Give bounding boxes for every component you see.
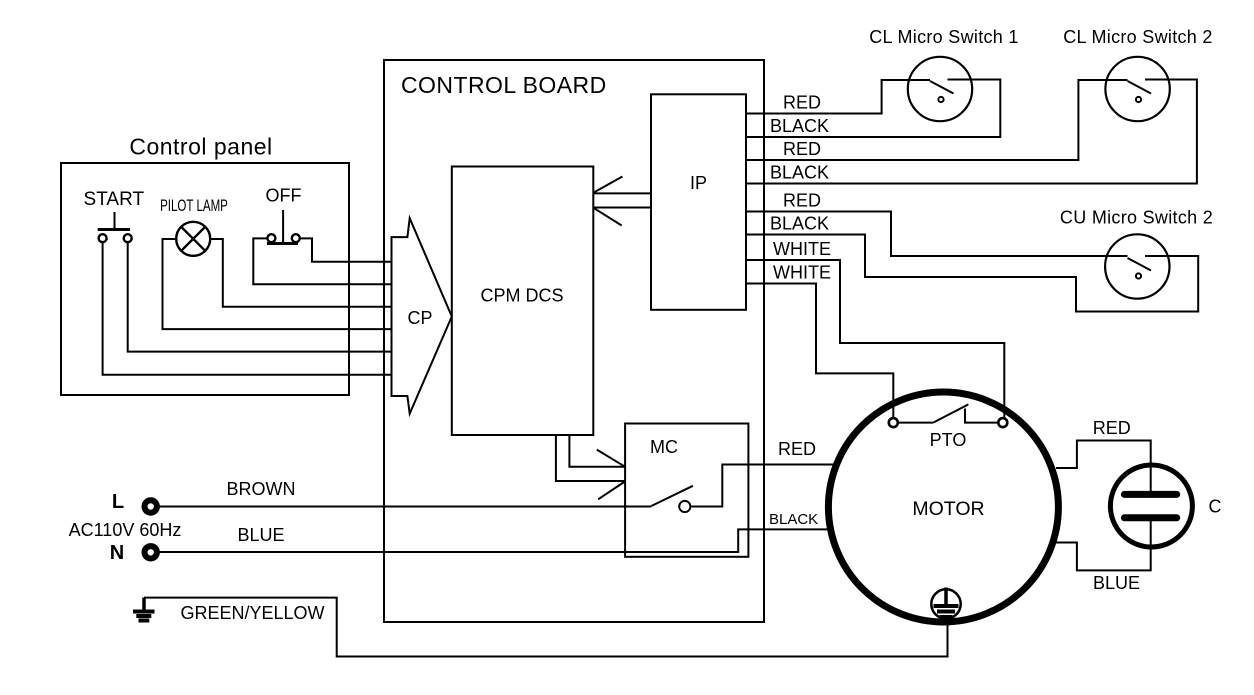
earth ground bar 3 — [139, 619, 150, 623]
svg-text:RED: RED — [1093, 418, 1131, 438]
start button terminal left — [99, 234, 107, 242]
PTO switch lever — [933, 404, 968, 422]
wire off right to CP pin1 — [301, 238, 392, 261]
terminal L — [145, 500, 157, 512]
CL micro switch 2 lever — [1128, 81, 1152, 94]
svg-text:WHITE: WHITE — [773, 263, 831, 283]
svg-text:BLACK: BLACK — [770, 163, 829, 183]
svg-text:CU Micro Switch 2: CU Micro Switch 2 — [1060, 208, 1213, 228]
CU micro switch 2 body — [1105, 234, 1169, 298]
terminal N — [145, 546, 157, 558]
capacitor plate bottom — [1124, 514, 1176, 521]
IP wire 8 WHITE to PTO left — [746, 284, 893, 418]
MC relay lever — [651, 486, 693, 506]
motor M1 body — [828, 392, 1058, 622]
CL micro switch 2 contact dot — [1136, 97, 1141, 102]
MC relay contact — [679, 501, 690, 512]
CL micro switch 2 body — [1105, 57, 1169, 121]
CPM DCS box U1 — [452, 167, 594, 436]
svg-text:PILOT LAMP: PILOT LAMP — [160, 197, 228, 216]
wire start right to CP pin5 — [128, 243, 392, 352]
motor ground bar 2 — [937, 610, 955, 614]
arrowhead barb upper — [594, 177, 622, 193]
CONTROL BOARD box — [384, 60, 764, 622]
arrowhead barb lower — [594, 208, 622, 225]
svg-text:BLUE: BLUE — [237, 525, 284, 545]
earth ground bar 1 — [133, 610, 155, 614]
svg-text:L: L — [112, 491, 124, 513]
IP box U2 — [651, 94, 746, 309]
PTO switch lead left — [899, 422, 933, 424]
off button S2 stem — [282, 210, 284, 242]
pilot lamp X stroke 2 — [181, 227, 205, 251]
svg-text:RED: RED — [778, 439, 816, 459]
bus IP to CPM line 1 — [594, 192, 651, 194]
svg-text:CP: CP — [407, 308, 432, 328]
svg-text:IP: IP — [690, 173, 707, 193]
svg-text:CL Micro Switch 1: CL Micro Switch 1 — [869, 27, 1018, 47]
bus CPM to MC line 1 — [569, 435, 625, 467]
motor ground bar 1 — [934, 604, 959, 608]
off button S2 bar — [267, 242, 298, 245]
PTO switch terminal left — [889, 418, 898, 427]
svg-text:GREEN/YELLOW: GREEN/YELLOW — [180, 603, 324, 623]
capacitor plate top — [1124, 491, 1176, 498]
arrowhead barb lower — [598, 481, 625, 499]
bus CPM to MC line 2 — [556, 435, 625, 481]
CL micro switch 1 body — [908, 57, 972, 121]
CU micro switch 2 contact dot — [1136, 273, 1141, 278]
svg-text:CL Micro Switch 2: CL Micro Switch 2 — [1063, 27, 1212, 47]
svg-text:RED: RED — [783, 191, 821, 211]
start button S1 stem — [114, 212, 116, 229]
capacitor C body — [1110, 465, 1192, 547]
svg-text:PTO: PTO — [930, 430, 967, 450]
ground wire GREEN/YELLOW to motor — [144, 598, 948, 657]
wire lamp right to CP pin3 — [210, 239, 391, 307]
PTO switch right step — [965, 409, 997, 423]
connector CP — [392, 218, 452, 413]
IP wire 5 RED to CU micro switch 2 — [746, 212, 1128, 257]
off button terminal left — [267, 234, 275, 242]
PTO switch terminal right — [998, 418, 1007, 427]
arrowhead barb upper — [597, 450, 625, 467]
CL micro switch 1 contact dot — [938, 97, 943, 102]
svg-text:BLUE: BLUE — [1093, 573, 1140, 593]
svg-text:RED: RED — [783, 93, 821, 113]
wire lamp left to CP pin4 — [163, 239, 392, 329]
svg-text:AC110V 60Hz: AC110V 60Hz — [69, 520, 182, 540]
motor ground symbol circle — [931, 589, 960, 618]
earth ground bar 2 — [136, 614, 151, 618]
svg-text:WHITE: WHITE — [773, 239, 831, 259]
CL micro switch 1 lever — [930, 81, 954, 94]
motor ground stem — [944, 588, 948, 606]
IP wire 1 RED to CL micro switch 1 — [746, 80, 930, 114]
svg-text:MC: MC — [650, 437, 678, 457]
svg-text:BROWN: BROWN — [227, 479, 296, 499]
svg-text:BLACK: BLACK — [770, 116, 829, 136]
motor ground bar 3 — [940, 615, 953, 619]
svg-text:BLACK: BLACK — [770, 214, 829, 234]
pilot lamp DS1 — [176, 222, 210, 256]
IP wire 2 BLACK from CL micro switch 1 — [746, 80, 1000, 138]
off button terminal right — [292, 234, 300, 242]
svg-text:N: N — [110, 542, 124, 564]
svg-text:START: START — [84, 189, 145, 210]
start button S1 bar — [98, 228, 130, 231]
IP wire 6 BLACK from CU micro switch 2 — [746, 235, 1198, 312]
svg-text:RED: RED — [783, 139, 821, 159]
wire RED motor to capacitor — [1056, 441, 1151, 495]
MC box K1 — [625, 424, 748, 557]
svg-text:Control panel: Control panel — [129, 134, 272, 160]
IP wire 4 BLACK from CL micro switch 2 — [746, 80, 1197, 184]
svg-text:CPM DCS: CPM DCS — [480, 286, 563, 306]
wire BLUE capacitor to motor — [1055, 518, 1151, 571]
svg-text:BLACK: BLACK — [769, 511, 818, 528]
pilot lamp X stroke 1 — [181, 227, 205, 251]
wire start left to CP pin6 — [103, 243, 392, 375]
earth ground symbol stem — [142, 598, 146, 610]
svg-text:CONTROL BOARD: CONTROL BOARD — [401, 72, 607, 98]
wire off left to CP pin2 — [253, 238, 391, 284]
CU micro switch 2 lever — [1128, 258, 1152, 271]
wire RED MC to motor — [691, 465, 834, 507]
svg-text:C: C — [1209, 497, 1222, 517]
control panel box — [61, 163, 349, 395]
IP wire 3 RED to CL micro switch 2 — [746, 80, 1128, 160]
wire BLUE from N through MC as BLACK to motor — [160, 529, 829, 552]
svg-text:MOTOR: MOTOR — [912, 498, 984, 520]
bus IP to CPM line 2 — [594, 207, 651, 209]
wire BROWN from L to MC switch — [160, 506, 652, 508]
start button terminal right — [124, 234, 132, 242]
svg-text:OFF: OFF — [266, 186, 302, 206]
IP wire 7 WHITE to PTO right — [746, 260, 1004, 417]
